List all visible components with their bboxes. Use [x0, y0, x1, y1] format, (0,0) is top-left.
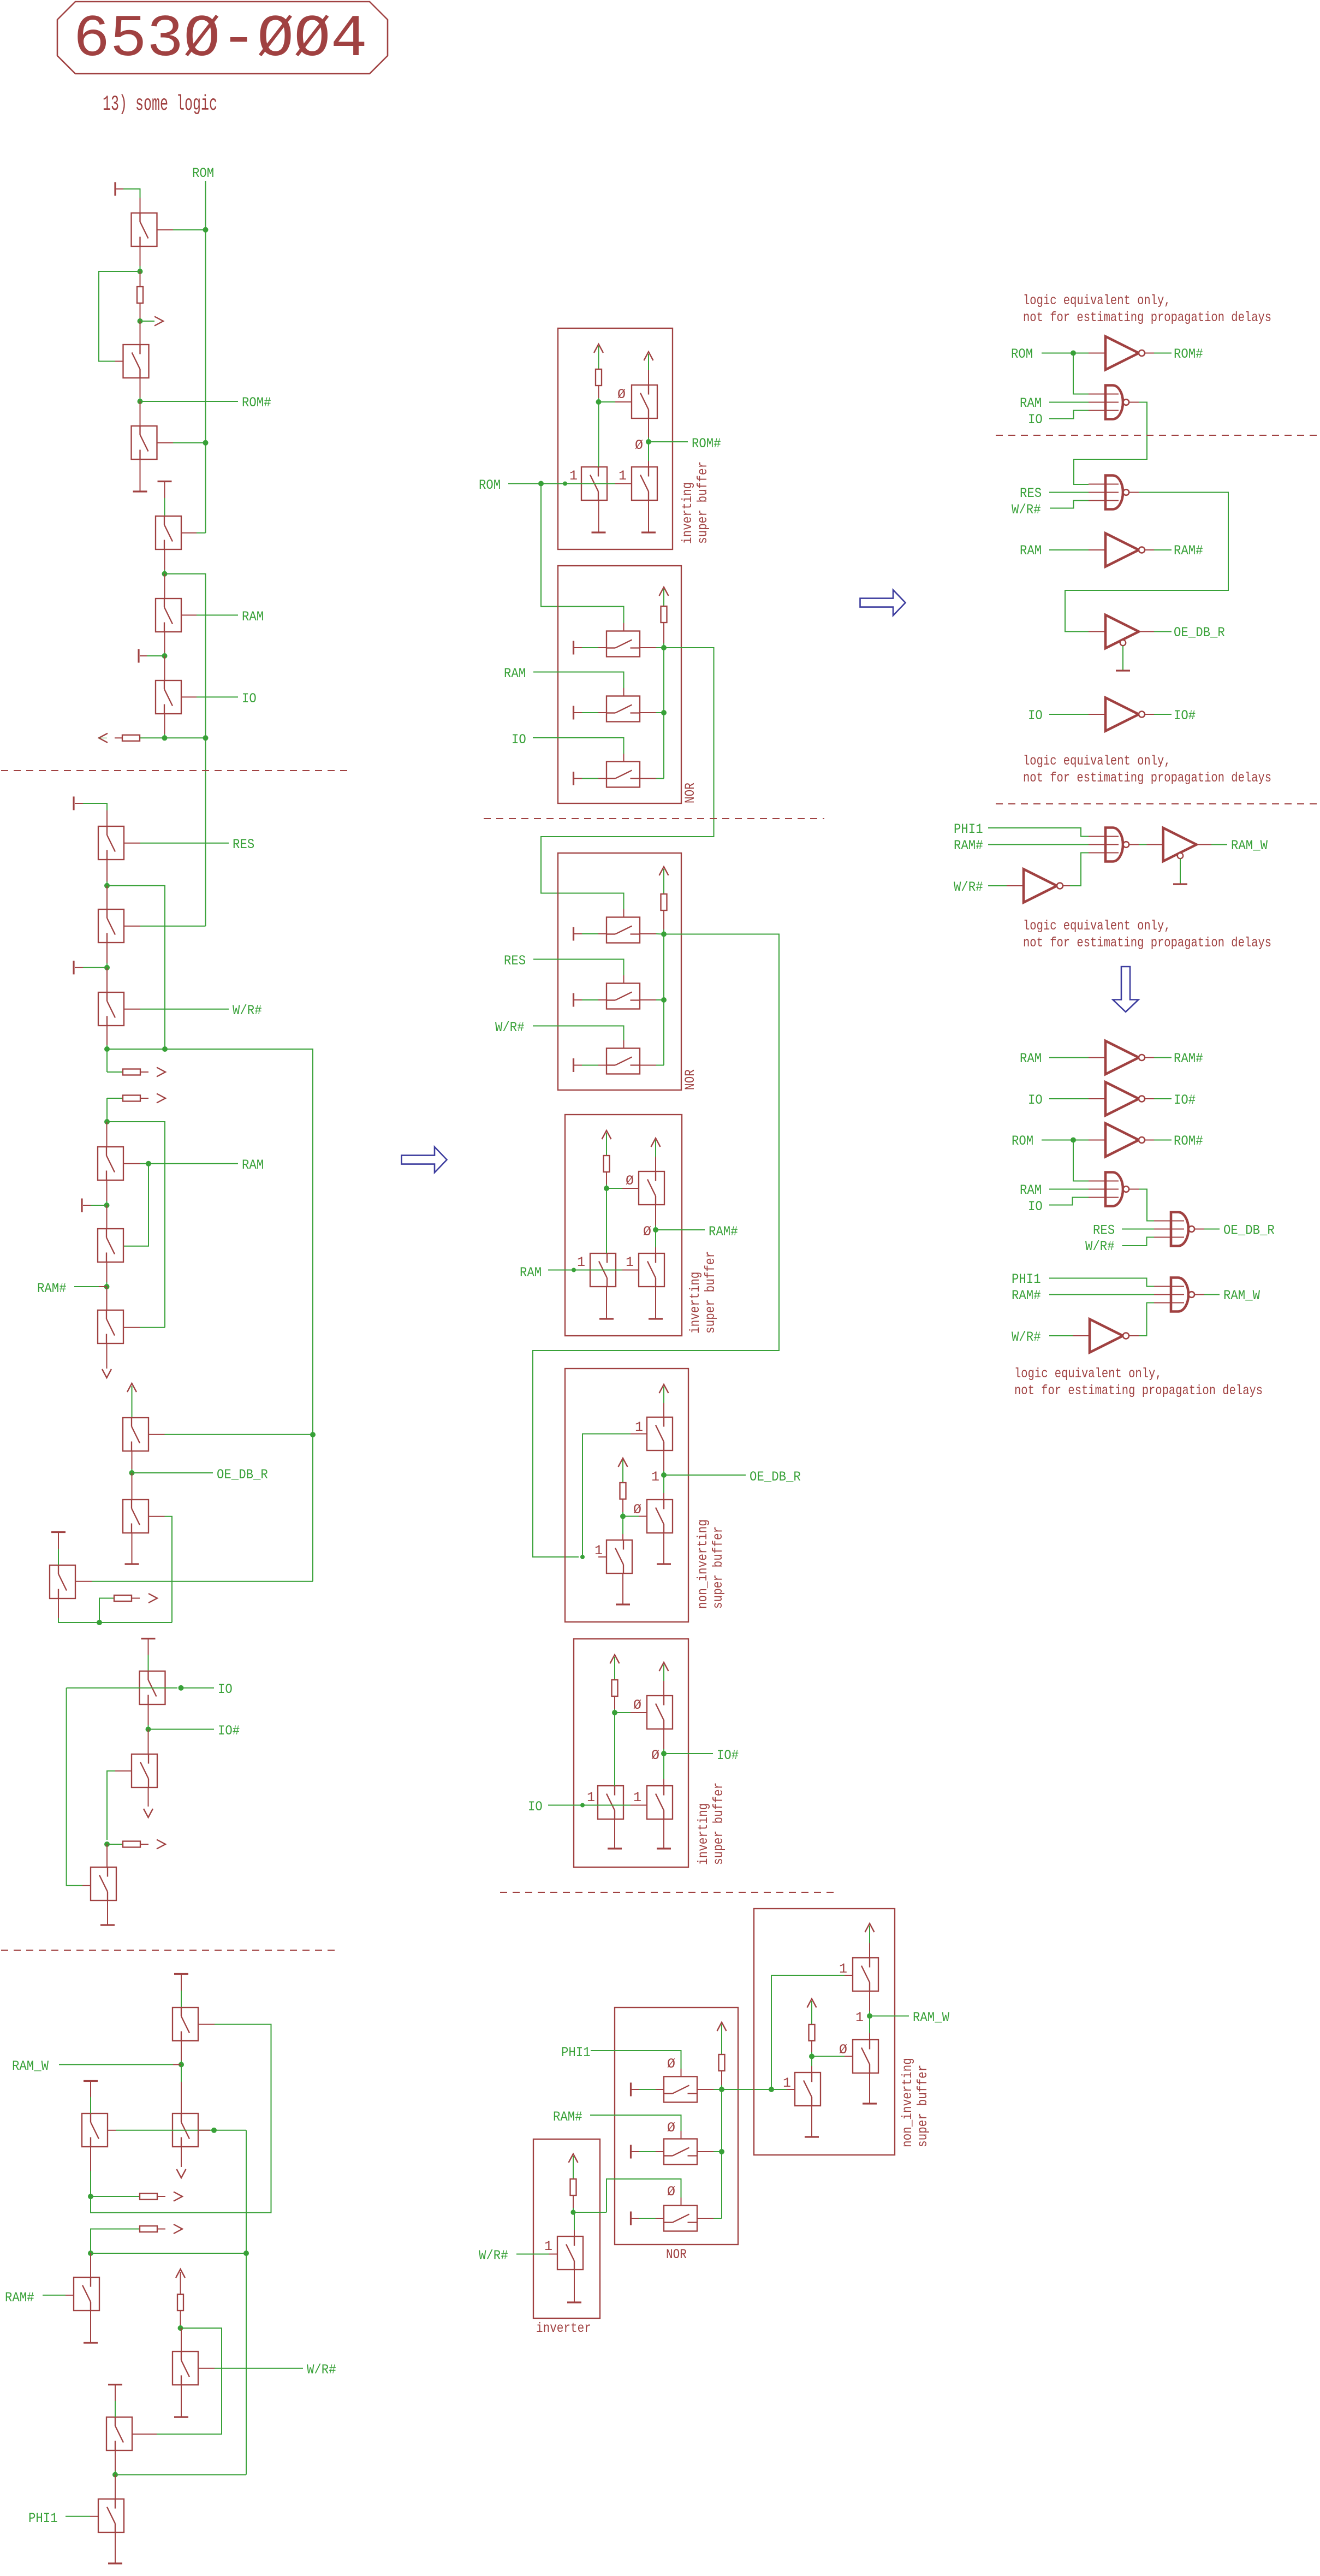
block3 frame NOR	[558, 853, 681, 1090]
svg-text:W/R#: W/R#	[1012, 502, 1041, 518]
wire node V to Q25	[115, 2475, 116, 2500]
wire U9 enable to ground	[1180, 859, 1181, 884]
wire node I down to probe 1	[106, 1049, 108, 1072]
nand U3 inputs	[1089, 483, 1119, 484]
ground QG2	[863, 2103, 877, 2104]
wire RAM to U10	[1049, 1057, 1089, 1058]
svg-text:super buffer: super buffer	[703, 1251, 718, 1334]
dashed separator left 2	[1, 1950, 335, 1951]
wire node B6a to QE1 gate	[615, 1712, 631, 1713]
junction QF2 out	[719, 2149, 724, 2154]
transistor QE3	[598, 1786, 623, 1819]
node B5a junction	[620, 1514, 626, 1519]
node V junction	[112, 2472, 118, 2478]
nand U2	[1105, 386, 1129, 419]
transistor Q17	[132, 1754, 157, 1787]
svg-text:super buffer: super buffer	[711, 1783, 727, 1865]
junction node I x302	[162, 1046, 168, 1052]
wire vcc to QE1	[663, 1665, 664, 1681]
svg-text:IO: IO	[218, 1681, 233, 1697]
block2 frame NOR	[558, 566, 681, 803]
nand U3	[1105, 476, 1129, 510]
node S junction	[88, 2194, 93, 2199]
arrow up chain H	[176, 2269, 185, 2278]
node D junction	[162, 571, 168, 577]
transistor QN1	[607, 631, 640, 657]
vcc arrow inverter	[569, 2154, 578, 2163]
svg-text:RAM_W: RAM_W	[1223, 1288, 1260, 1304]
probe resistor RC1	[107, 1071, 123, 1073]
node U junction	[178, 2325, 183, 2331]
transistor Q6	[156, 680, 181, 714]
transistor Q3	[132, 426, 157, 459]
wire node T bus right	[91, 2253, 246, 2254]
wire Q21 to Q20 pass line	[108, 2130, 116, 2131]
wire vcc to RM6	[614, 1657, 615, 1680]
vcc tick Q15	[51, 1531, 66, 1533]
wire inv out right	[573, 2212, 607, 2213]
wire node D down-feed	[165, 574, 206, 738]
blue arrow down	[1113, 967, 1139, 1012]
svg-text:1: 1	[587, 1790, 595, 1805]
probe resistor RC2	[107, 1098, 123, 1099]
wire U12 out to ROM#	[1145, 1140, 1154, 1141]
transistor QG2	[853, 2040, 878, 2073]
junction RAM branch	[146, 1161, 151, 1166]
svg-text:1: 1	[594, 1543, 603, 1559]
svg-text:inverter: inverter	[536, 2320, 591, 2336]
wire node G branch right down	[107, 886, 165, 1049]
wire U16 out to U15 input3	[1129, 1335, 1139, 1336]
svg-text:inverting: inverting	[695, 1803, 711, 1865]
resistor RH1	[177, 2294, 183, 2311]
wire QG3 gate from buffer-in	[787, 2089, 795, 2090]
svg-text:Ø: Ø	[839, 2042, 847, 2058]
enable bubble U5	[1120, 640, 1126, 646]
wire Q6 gate to IO label	[181, 696, 197, 697]
resistor RM8	[570, 2179, 576, 2195]
wire NOR2 out vertical	[663, 934, 664, 1065]
svg-text:W/R#: W/R#	[954, 879, 983, 895]
arrow down Q17	[144, 1809, 153, 1817]
transistor Q15	[50, 1565, 75, 1598]
svg-text:RAM: RAM	[1020, 395, 1042, 411]
wire vcc to RM8	[573, 2156, 574, 2179]
wire Q5 gate to RAM label	[181, 614, 197, 615]
svg-text:OE_DB_R: OE_DB_R	[217, 1467, 268, 1483]
wire node B5a to QD3 top	[622, 1517, 623, 1535]
inverter U6	[1105, 698, 1145, 731]
wire node M to OE_DB_R label	[132, 1472, 213, 1473]
gnd bar QN1	[573, 641, 574, 655]
svg-text:1: 1	[635, 1419, 643, 1435]
wire NOR3 out vertical	[721, 2089, 722, 2218]
inverter U8	[1024, 869, 1063, 903]
transistor QN4	[607, 917, 640, 943]
transistor QE2	[647, 1786, 673, 1819]
wire PHI1 label to Q25 gate	[66, 2516, 90, 2517]
svg-text:RAM_W: RAM_W	[12, 2058, 49, 2074]
svg-text:Ø: Ø	[626, 1173, 634, 1189]
resistor RM7	[719, 2054, 725, 2071]
svg-text:RAM#: RAM#	[553, 2109, 582, 2125]
wire ROM branch to U13	[1073, 1140, 1089, 1181]
wire QD1 source to node OE	[663, 1450, 664, 1471]
wire RH1 to node U	[180, 2311, 181, 2325]
wire Q12 gate	[123, 1327, 140, 1328]
transistor Q2	[123, 345, 149, 378]
wire U15 out to RAM_W	[1195, 1294, 1204, 1295]
node G junction	[104, 883, 110, 889]
wire node B5a to QD2 gate	[623, 1516, 639, 1517]
wire U8 out to U7 input3	[1063, 885, 1070, 886]
wire U4 out to RAM#	[1145, 549, 1154, 550]
wire node M to Q14	[132, 1473, 133, 1500]
wire QD2 source to ground	[663, 1533, 664, 1564]
transistor QF1	[664, 2077, 697, 2103]
wire PHI1 to U7	[988, 828, 1089, 837]
wire vcc to RM2	[663, 589, 664, 606]
wire W/R# to U8	[988, 885, 1007, 886]
svg-text:logic equivalent only,: logic equivalent only,	[1023, 293, 1171, 309]
probe resistor RG2	[91, 2229, 140, 2254]
wire U11 out to IO#	[1145, 1098, 1154, 1099]
wire QD3 source to ground	[622, 1573, 623, 1604]
svg-text:super buffer: super buffer	[695, 461, 711, 544]
wire buffer-in up to QG1 gate	[771, 1975, 845, 2089]
ground Q25	[108, 2562, 122, 2564]
node NOR3 out junction	[719, 2087, 724, 2092]
wire QN2 right to out	[640, 712, 656, 713]
svg-text:1: 1	[651, 1469, 659, 1485]
node B1a junction	[596, 399, 602, 405]
ground QE3	[608, 1847, 622, 1849]
wire Q16 source to node O	[148, 1705, 149, 1726]
wire RM5 to node B5a	[622, 1499, 623, 1512]
wire QC3 source to ground	[606, 1287, 607, 1318]
inverter U12	[1105, 1123, 1145, 1157]
wire Q14 source to ground	[132, 1533, 133, 1564]
wire RAM to U13	[1049, 1189, 1089, 1190]
transistor Q8	[98, 909, 124, 943]
svg-text:Ø: Ø	[633, 1502, 641, 1518]
svg-text:W/R#: W/R#	[233, 1003, 262, 1018]
transistor Q23	[106, 2417, 132, 2450]
svg-text:W/R#: W/R#	[307, 2362, 336, 2378]
transistor Q1 load	[132, 213, 157, 246]
vcc arrow block4 right	[651, 1138, 661, 1147]
pin dot QB3 gate	[563, 482, 567, 486]
wire Q19 gate loop right	[198, 2024, 215, 2025]
wire RM2 to NOR1 out node	[663, 623, 664, 643]
wire Q17 source down arrow	[148, 1788, 149, 1807]
wire U6 out to IO#	[1145, 714, 1154, 715]
arrow down Q12	[102, 1369, 111, 1378]
wire QG1 source to node RAM_W	[869, 1991, 870, 2011]
svg-text:ROM#: ROM#	[242, 395, 271, 411]
junction QN5 out	[661, 997, 667, 1003]
transistor Q16	[140, 1671, 165, 1704]
svg-text:W/R#: W/R#	[1012, 1329, 1041, 1345]
svg-text:Ø: Ø	[667, 2184, 675, 2200]
wire Q9 source to node I	[106, 1026, 108, 1046]
wire Q22 source to ground	[90, 2311, 91, 2343]
nand U15 inputs	[1154, 1286, 1184, 1287]
wire RM1 to node B1a	[598, 386, 599, 398]
wire U13 out to U14	[1129, 1189, 1139, 1190]
svg-text:RAM: RAM	[1020, 1182, 1042, 1198]
wire QG3 source to ground	[811, 2106, 812, 2136]
wire Q19 source to node Q	[181, 2041, 182, 2061]
svg-text:Ø: Ø	[643, 1224, 651, 1240]
wire W/R# to U3	[1050, 501, 1089, 508]
wire IO to U13	[1049, 1198, 1089, 1205]
nand U15	[1171, 1278, 1194, 1312]
wire PHI1 to U15	[1049, 1278, 1154, 1287]
wire RM9 to node B9a	[811, 2041, 812, 2052]
transistor Q24	[173, 2352, 198, 2385]
dashed separator middle 1	[484, 818, 824, 819]
svg-text:OE_DB_R: OE_DB_R	[1223, 1223, 1275, 1239]
svg-text:NOR: NOR	[682, 1069, 698, 1090]
wire RES to U3	[1049, 492, 1089, 493]
svg-text:Ø: Ø	[635, 437, 643, 453]
svg-text:RES: RES	[1020, 485, 1042, 501]
ground QB2	[641, 531, 656, 533]
node I junction	[104, 1046, 110, 1052]
node K junction	[104, 1203, 110, 1208]
vcc tick Q19	[174, 1973, 188, 1975]
wire node C to ROM# label	[140, 401, 239, 402]
inverter U4	[1105, 534, 1145, 567]
wire RM4 to node B4a	[606, 1172, 607, 1185]
ground U9	[1173, 883, 1187, 885]
node B9a junction	[809, 2054, 814, 2059]
wire arrow to RH1	[180, 2272, 181, 2294]
wire IO to U6	[1049, 714, 1089, 715]
resistor RM5	[620, 1483, 626, 1499]
transistor QE1	[647, 1696, 673, 1729]
wire node F probe resistor	[140, 737, 165, 738]
svg-text:NOR: NOR	[682, 783, 698, 803]
wire U5 enable to ground	[1122, 646, 1123, 671]
wire Q20 right net down	[246, 2130, 247, 2475]
wire vcc to RM1	[598, 346, 599, 369]
wire vcc to RM3	[663, 869, 664, 894]
wire node N probe	[99, 1598, 114, 1623]
blue arrow middle-to-right	[860, 590, 906, 615]
wire RAM#m to QC2	[655, 1230, 656, 1247]
dashed separator left 1	[1, 770, 352, 771]
wire RAM# to U7	[988, 844, 1089, 845]
inverter U16	[1090, 1319, 1129, 1353]
wire U3 out to U5 path	[1129, 492, 1139, 493]
svg-text:1: 1	[544, 2239, 552, 2254]
wire IO#m to QE2	[663, 1754, 664, 1779]
wire node E to Q6	[164, 656, 165, 680]
svg-text:RAM: RAM	[242, 1157, 264, 1173]
vcc tick chain F	[141, 1638, 156, 1639]
wire ROM branch to NOR1	[541, 484, 624, 624]
svg-text:RAM#: RAM#	[5, 2290, 34, 2306]
ground QE2	[657, 1847, 671, 1849]
wire Q1 gate to ROM	[157, 229, 174, 230]
transistor QC2	[639, 1253, 664, 1287]
svg-text:RAM_W: RAM_W	[1231, 838, 1268, 854]
wire QG2 source to ground	[869, 2073, 870, 2103]
svg-text:W/R#: W/R#	[479, 2248, 508, 2264]
svg-text:W/R#: W/R#	[495, 1020, 525, 1035]
svg-text:1: 1	[626, 1254, 634, 1270]
wire Q13 gate to bus	[148, 1434, 165, 1435]
junction ROM branch m	[538, 481, 544, 487]
ground QC3	[599, 1318, 614, 1319]
wire node O to Q17	[148, 1730, 149, 1755]
vcc tick chain C	[73, 797, 74, 810]
ground QH1	[567, 2301, 581, 2303]
wire IO-net continues down	[205, 738, 206, 926]
probe arrow RG1	[174, 2192, 182, 2201]
vcc arrow block9 left	[807, 1999, 817, 2007]
junction Q3-ROMnet	[203, 440, 209, 446]
wire RAM to U2	[1049, 402, 1089, 403]
vcc tick Q23	[108, 2384, 122, 2385]
probe arrow left	[99, 733, 108, 743]
vcc arrow block4 left	[602, 1130, 611, 1139]
wire arrow to Q13	[132, 1386, 133, 1418]
wire RM3 to NOR2 out node	[663, 910, 664, 929]
svg-text:RAM: RAM	[242, 609, 264, 625]
transistor Q12	[98, 1310, 123, 1343]
wire NOR2 output path to block5	[533, 934, 779, 1558]
svg-text:Ø: Ø	[651, 1748, 659, 1763]
node M junction OE_DB_R	[129, 1470, 135, 1476]
vcc tick Q21	[84, 2080, 98, 2082]
node RAM#m junction	[653, 1227, 658, 1233]
block9 frame non_inverting super buffer	[754, 1909, 895, 2155]
wire Q18 source to ground	[107, 1901, 108, 1925]
vcc arrow block1 right	[644, 352, 653, 360]
ground QB3	[592, 531, 606, 533]
svg-text:ROM#: ROM#	[1174, 1133, 1203, 1149]
svg-text:ROM: ROM	[192, 165, 214, 181]
node B6a junction	[612, 1710, 617, 1715]
wire NOR1 output path to NOR2	[541, 648, 714, 909]
junction node R	[243, 2251, 249, 2256]
svg-text:RES: RES	[1093, 1223, 1115, 1239]
wire RAM input line	[548, 1270, 622, 1271]
transistor QC3	[590, 1253, 616, 1287]
transistor QN3	[607, 762, 640, 787]
wire RAM# label to Q22 gate	[43, 2295, 66, 2296]
inverter U10	[1105, 1041, 1145, 1074]
svg-text:RAM: RAM	[1020, 543, 1042, 559]
svg-text:ROM: ROM	[1012, 1133, 1033, 1149]
resistor RM3	[661, 894, 667, 910]
svg-text:logic equivalent only,: logic equivalent only,	[1023, 753, 1171, 769]
wire W/R# to QN6 gate	[533, 1026, 624, 1041]
wire RAM_Wm to QG2	[869, 2016, 870, 2034]
wire Q23 source to node V	[115, 2451, 116, 2471]
node B junction with probe arrow	[138, 318, 143, 324]
svg-text:1: 1	[855, 2010, 864, 2026]
wire U10 out to RAM#	[1145, 1057, 1154, 1058]
svg-text:RAM: RAM	[1020, 1051, 1042, 1067]
resistor RM9	[809, 2024, 815, 2041]
wire Q9 gate to W/R# label	[124, 1009, 140, 1010]
node B4a junction	[604, 1186, 609, 1191]
svg-text:RAM#: RAM#	[1174, 543, 1203, 559]
wire IO to U2	[1049, 411, 1089, 419]
wire node B1a to QB1 gate	[599, 401, 616, 402]
wire node U to Q24	[181, 2328, 182, 2352]
junction Q20 pin	[211, 2128, 217, 2133]
wire QN5 right to out	[640, 999, 656, 1000]
node J junction	[104, 1119, 110, 1124]
gnd bar QN2	[573, 706, 574, 720]
wire node B4a down to QC3 top	[606, 1188, 607, 1253]
block7 frame NOR3	[615, 2007, 738, 2245]
dashed separator middle 2	[500, 1892, 834, 1893]
svg-text:IO#: IO#	[218, 1723, 240, 1739]
svg-text:RAM#: RAM#	[709, 1224, 738, 1240]
wire Q5 source to node E	[164, 632, 165, 653]
vcc arrow block6 left	[610, 1655, 620, 1663]
transistor QF3	[664, 2206, 697, 2231]
nand U13	[1105, 1172, 1129, 1206]
block5 frame non_inverting super buffer	[565, 1369, 688, 1622]
node T junction	[88, 2251, 93, 2256]
gnd bar QN5	[573, 993, 574, 1007]
resistor RB1 horizontal	[122, 735, 140, 741]
wire vcc to RM7	[721, 2024, 722, 2054]
gnd bar QF2	[630, 2145, 632, 2159]
node O junction IO#	[146, 1727, 151, 1732]
svg-text:PHI1: PHI1	[561, 2045, 591, 2060]
wire Q14 gate loop	[148, 1516, 165, 1517]
probe arrow RE1	[148, 1594, 157, 1603]
svg-text:non_inverting: non_inverting	[900, 2058, 915, 2147]
svg-text:ROM#: ROM#	[1174, 346, 1203, 362]
svg-text:IO: IO	[528, 1799, 543, 1815]
wire node H to Q9	[106, 968, 108, 992]
gnd bar QF3	[630, 2212, 632, 2225]
wire W/R# to U16	[1049, 1335, 1073, 1336]
wire QB3 source to ground	[598, 500, 599, 532]
wire QN6 right to out	[640, 1065, 656, 1066]
svg-text:1: 1	[619, 468, 627, 484]
node OEm junction	[661, 1472, 667, 1478]
probe arrow RG2	[174, 2224, 182, 2234]
wire node B6a down to QE3 top	[614, 1713, 615, 1786]
wire node P to Q18	[106, 1844, 108, 1867]
wire Q25 source to ground	[115, 2533, 116, 2563]
svg-text:not for estimating propagation: not for estimating propagation delays	[1023, 310, 1271, 325]
node L junction RAM#	[104, 1284, 110, 1289]
wire W/R# to QH1 gate	[516, 2254, 549, 2255]
junction ROM r1	[1071, 351, 1076, 356]
wire Q21 source chain down	[90, 2147, 91, 2171]
transistor Q20	[173, 2113, 198, 2147]
svg-text:13) some logic: 13) some logic	[103, 92, 217, 116]
wire Q2 source to node C	[140, 378, 141, 398]
ground Q24	[174, 2416, 188, 2418]
wire Q10 source to node K	[106, 1181, 108, 1201]
svg-text:IO#: IO#	[717, 1748, 739, 1763]
transistor QG1	[853, 1958, 878, 1991]
probe arrow RF1	[157, 1840, 165, 1849]
vcc arrow NOR3	[717, 2022, 727, 2031]
